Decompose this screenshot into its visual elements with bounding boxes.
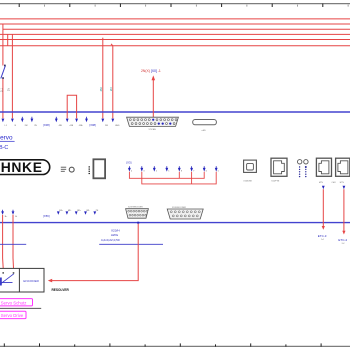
svg-text:Servo Schutz: Servo Schutz	[1, 300, 27, 305]
cable line	[0, 243, 26, 245]
svg-text:L1: L1	[5, 125, 8, 127]
underline 1	[0, 307, 41, 309]
X3 jumper A	[129, 172, 204, 179]
svg-text:uSD: uSD	[202, 130, 207, 132]
icon bars	[61, 167, 66, 171]
wire bus L6	[0, 45, 350, 47]
connector X6 ethercat out	[332, 158, 350, 184]
svg-text:1: 1	[168, 170, 169, 172]
pin MF-	[66, 210, 72, 215]
wire v2 drop to pin N	[11, 34, 13, 118]
frame top ruler	[0, 3, 350, 5]
svg-text:X11/PTN: X11/PTN	[271, 181, 280, 183]
svg-text:KUHNKE: KUHNKE	[0, 159, 43, 175]
svg-text:Servo: Servo	[0, 135, 13, 142]
pin BR+	[75, 210, 82, 215]
svg-text:ENCODER: ENCODER	[23, 279, 39, 283]
svg-text:HTN: HTN	[340, 182, 345, 184]
resolver symbol	[1, 274, 14, 286]
pin ethercat 3	[322, 186, 325, 190]
svg-text:B-C: B-C	[0, 145, 8, 151]
svg-text:X7/CAN: X7/CAN	[149, 128, 157, 131]
svg-text:X24/ ENCODER: X24/ ENCODER	[172, 207, 187, 209]
wire bus L3	[3, 28, 350, 30]
svg-text:2N: 2N	[8, 88, 11, 91]
svg-text:2N(X) [X0] -1: 2N(X) [X0] -1	[141, 69, 161, 73]
svg-text:2x2: 2x2	[321, 239, 324, 241]
svg-text:B-: B-	[15, 216, 17, 218]
svg-text:ETC-3: ETC-3	[318, 234, 327, 238]
wire ETC-3	[322, 189, 325, 230]
svg-text:-RB: -RB	[58, 125, 62, 127]
svg-text:MF+: MF+	[59, 210, 64, 212]
pin B+ bottom	[1, 210, 8, 218]
display dots	[89, 166, 91, 174]
device box top edge	[0, 111, 350, 113]
wire stub L5-L6	[7, 34, 9, 45]
X3 jumper B	[142, 172, 216, 184]
svg-text:GND: GND	[115, 125, 120, 127]
svg-text:[X56]: [X56]	[43, 214, 50, 218]
encoder box	[0, 268, 44, 292]
connector X11 service port	[271, 158, 287, 182]
svg-text:2M: 2M	[105, 125, 108, 127]
connector X7 D-sub	[127, 117, 179, 131]
svg-text:-RBi: -RBi	[79, 125, 83, 127]
pin GND-mid	[111, 119, 120, 127]
svg-text:BR-: BR-	[87, 210, 91, 212]
resolver wire tips	[2, 272, 4, 273]
callout Servo Schutz	[0, 299, 33, 306]
svg-text:HTN: HTN	[319, 182, 324, 184]
svg-text:5: 5	[218, 170, 219, 172]
led S1	[298, 160, 302, 164]
svg-text:N: N	[15, 125, 17, 127]
icon circle	[69, 167, 74, 172]
pin +RBi	[75, 119, 83, 127]
svg-text:4,2x0,22,0,50: 4,2x0,22,0,50	[101, 238, 120, 242]
pin N	[11, 119, 17, 127]
wire motor B-	[12, 215, 14, 258]
connector X23 resolver D-sub	[126, 207, 149, 219]
pin ethercat 4	[343, 186, 346, 190]
wire bus L2	[0, 23, 350, 25]
led S2	[304, 160, 308, 164]
X3 pins	[128, 166, 219, 172]
wire bus L4	[0, 33, 350, 35]
svg-text:4: 4	[131, 170, 132, 172]
reference arrow X7	[152, 75, 156, 117]
svg-text:Servo Drive: Servo Drive	[1, 313, 24, 318]
frame bottom ruler	[0, 345, 350, 347]
svg-text:2L1: 2L1	[0, 87, 3, 92]
cable X23/H label	[101, 228, 120, 241]
junction dot resolver wire	[137, 222, 139, 224]
connector X24 encoder D-sub	[167, 207, 203, 219]
wire v1 drop to pin L1	[2, 24, 4, 118]
svg-text:ETC-4: ETC-4	[338, 238, 347, 242]
connector X10 USB	[243, 160, 256, 183]
wire motor B+	[2, 215, 4, 258]
svg-text:PE: PE	[96, 210, 99, 212]
svg-text:X10/USB: X10/USB	[243, 181, 252, 183]
pin PE	[93, 210, 99, 215]
svg-text:X23/H: X23/H	[111, 228, 120, 232]
pin B- bottom	[12, 210, 18, 218]
svg-text:7: 7	[193, 170, 194, 172]
svg-text:3: 3	[143, 170, 144, 172]
svg-text:2x2: 2x2	[342, 243, 345, 245]
svg-text:2M: 2M	[99, 87, 103, 92]
svg-text:MF-: MF-	[68, 210, 72, 212]
pin 2M-top	[21, 117, 28, 127]
pin -RB	[55, 117, 63, 127]
switch dots S2	[305, 166, 307, 177]
svg-text:RESOLVER: RESOLVER	[52, 288, 70, 292]
logo KUHNKE	[0, 159, 50, 175]
svg-text:2: 2	[156, 170, 157, 172]
switch dots S1	[299, 166, 300, 177]
svg-text:2N: 2N	[34, 125, 37, 127]
svg-text:6: 6	[206, 170, 207, 172]
pin BR-	[84, 210, 90, 215]
device box bottom edge	[0, 222, 350, 224]
svg-text:+RB: +RB	[69, 125, 74, 127]
pin L1	[2, 119, 8, 127]
wire bus L5	[0, 39, 350, 41]
svg-text:[X3]: [X3]	[126, 160, 131, 164]
wire v3 drop to pin 2M	[102, 38, 104, 119]
connector X5 ethercat in	[316, 158, 331, 184]
svg-text:2N: 2N	[109, 88, 113, 92]
wire v4 drop to pin GND	[111, 44, 113, 119]
svg-text:[X08]: [X08]	[90, 123, 97, 127]
pin -DC	[85, 117, 88, 122]
wire ETC-4	[342, 189, 345, 234]
svg-text:8: 8	[181, 170, 182, 172]
pin +RB	[66, 119, 74, 127]
svg-text:CHO: CHO	[332, 182, 337, 184]
svg-text:BR+: BR+	[77, 210, 82, 212]
jumper X8	[67, 95, 76, 118]
callout Servo Drive	[0, 311, 26, 318]
pin MF+	[57, 210, 64, 215]
svg-text:B+: B+	[5, 216, 8, 218]
breaker F1	[1, 65, 6, 79]
wire bus L1	[0, 18, 350, 20]
svg-text:2M: 2M	[25, 125, 28, 127]
pin 2M-mid	[101, 119, 108, 127]
display window	[93, 159, 105, 178]
sd card slot	[193, 120, 217, 133]
wire resolver	[48, 224, 138, 283]
svg-text:[X08]: [X08]	[43, 123, 50, 127]
svg-text:AWG: AWG	[111, 233, 119, 237]
pin 2N-top	[31, 117, 38, 127]
